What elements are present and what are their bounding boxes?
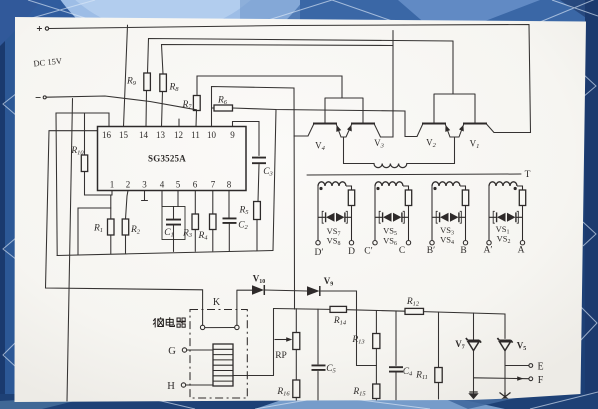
resistor R1 [108,219,115,235]
wire V7 leads [473,313,475,396]
svg-text:D: D [348,247,355,257]
transistor V2 legs [417,124,450,138]
svg-text:B: B [460,246,466,256]
pin numbers bottom row [110,180,232,190]
CJK label 电 [166,319,173,325]
svg-text:15: 15 [119,130,129,140]
wire IC left to outer rail down to relay contact [46,131,203,326]
wire relay coil to RP line [233,375,274,377]
resistor R6 [214,105,233,111]
wire tap V2/V1 box [452,41,454,94]
wire emitters to primary winding [344,137,375,164]
CJK label 繼 [153,318,155,328]
contact circle left [200,325,204,329]
svg-text:RP: RP [275,351,287,361]
wire R1 left branch to bus [78,208,111,255]
wire R7 top to V4/V3 bases [197,76,342,98]
wire R9 top rail to V2/V1 bases [148,39,454,74]
wire R2 bottom [125,235,127,254]
svg-text:3: 3 [142,180,147,190]
wire long left to bottom edge [67,99,73,402]
transistor V2 emitter arrow [445,125,450,132]
polarity dot cell C [376,187,379,190]
polarity dot cell B [433,187,436,190]
terminal H circle [181,383,185,387]
svg-text:C′: C′ [364,247,372,257]
RP wiper lead [275,339,288,341]
contact circle right [235,325,239,329]
wire R6 right long to V2 collector [233,108,418,137]
wire C2 bottom [228,224,230,251]
resistor R8 [160,74,167,92]
wire pin7 R4 [212,191,214,215]
transistor V2 base bar [422,123,446,125]
wire pin10 long to V10/V9 and bus [212,87,295,310]
wire R13 leads [375,311,377,366]
transistor V3 emitter arrow [347,125,352,132]
terminal plus circle [45,27,48,30]
polarity dot cell D [319,187,322,190]
wire H terminal [186,384,213,386]
svg-text:2: 2 [126,180,131,190]
wire V10-V9 link [265,290,308,291]
wire C1 leads [173,207,175,252]
op-amp U1 SG3525A body [98,127,247,191]
transformer core line [307,174,521,175]
relay coil hatch [213,349,233,381]
wire V3 collector to +rail [381,31,394,138]
capacitor C1 outer box [162,207,185,240]
wire R3 bottom [194,230,196,252]
capacitor C5 [312,365,326,370]
svg-text:H: H [167,381,175,392]
diode V6 bottom cut [468,393,478,399]
wire ground bus bottom [57,251,273,256]
capacitor C2 [223,218,237,223]
wire lower bus with R14 R12 [274,309,506,339]
wire C4 leads [395,311,397,400]
svg-text:14: 14 [139,130,149,140]
svg-text:8: 8 [227,180,232,190]
diode V9 [307,286,320,296]
wire V9 cathode to R13/R15 node [321,291,377,366]
wire pin6 R3 [194,191,196,215]
wire relay contact K net [205,290,252,327]
svg-text:13: 13 [156,130,166,140]
wire R10 top to pin16 [85,113,110,155]
RP wiper arrow head [286,337,292,341]
svg-text:16: 16 [102,130,112,140]
potentiometer RP body [293,333,300,350]
wire R4 bottom [212,230,214,252]
wire pin16 rail left branch to ground bus [56,113,85,256]
resistor R12 [405,308,424,314]
terminal G circle [182,348,186,352]
wire R1 top [110,195,112,219]
pin numbers top row [102,130,235,140]
minus sign [36,97,41,99]
CJK label 器 [177,318,180,321]
resistor R2 [122,219,129,235]
svg-text:1: 1 [110,180,115,190]
wire RP wiper vertical [273,309,275,376]
diode V8 bottom cut cross [469,392,510,401]
svg-text:7: 7 [211,180,216,190]
wire R5 bottom [256,220,258,251]
svg-text:D′: D′ [315,248,324,258]
transformer secondary cell A [487,182,526,245]
wire pin8 C2 [228,191,230,219]
zener V5 [497,338,512,343]
svg-text:G: G [168,346,176,357]
wire G terminal [187,349,213,351]
svg-text:SG3525A: SG3525A [148,154,186,164]
relay coil box [213,344,233,386]
svg-text:A: A [518,246,525,256]
wire C3 to R5 [258,165,259,202]
wire F output [474,377,529,380]
diode V9 cathode bar [319,286,321,296]
transformer secondary cell C [373,182,412,245]
wire +15V rail [49,25,530,133]
wire pin3 stub [142,191,148,201]
wire R15 leads [375,366,377,402]
svg-text:12: 12 [174,130,183,140]
svg-text:E: E [537,361,543,372]
svg-text:B′: B′ [427,246,435,256]
wire R10 bottom to pin1 [85,172,113,196]
transistor V1 base bar [463,123,487,125]
diode V10 [252,285,264,295]
polarity dot cell A [514,187,517,190]
resistor R5 [254,202,261,220]
wire pin15 to +rail [124,25,128,126]
F output arrow head [517,376,523,380]
wire pin11 R7 [195,111,198,127]
wire V4 collector [294,135,308,137]
svg-text:5: 5 [176,180,181,190]
wire V5 leads [504,351,506,394]
primary winding coil [374,164,407,168]
transistor V1 emitter arrow [459,125,464,132]
transistor V3 legs [341,124,381,138]
wire pin4 stub [161,191,163,207]
wire RP to R16 [295,350,297,401]
resistor R16 [293,380,300,398]
relay K dashed box [190,310,247,399]
capacitor C1 plates [166,220,181,225]
svg-text:F: F [538,375,544,386]
wire box right edge R6 to bus [273,110,276,251]
svg-text:6: 6 [193,180,198,190]
wire pin5 stub [177,191,179,207]
capacitor C3 [252,158,266,164]
wire V2/V1 base box [434,94,475,124]
transistor V4 legs [308,124,341,138]
transistor V3 base bar [351,123,375,125]
resistor R13 [373,334,380,349]
terminal E circle [529,364,533,368]
wire pin14 R9 [145,91,148,127]
zener V7 [466,338,481,343]
svg-text:9: 9 [230,130,235,140]
svg-text:T: T [525,170,531,180]
wire R6 left [212,107,215,109]
transformer secondary cell B [430,182,469,245]
wire R8 top rail [162,45,394,75]
resistor R3 [192,214,199,230]
transistor V1 legs [450,124,494,138]
wire V4/V3 base box [325,98,363,124]
resistor R15 [373,384,380,399]
svg-text:C: C [399,246,405,256]
wire pin12 stub [178,119,180,127]
svg-text:K: K [213,297,221,308]
resistor R7 [193,96,200,111]
wire C5 leads [317,309,319,400]
transformer secondary cell D [316,182,355,245]
capacitor C4 [389,367,403,371]
transistor V4 base bar [313,123,337,125]
wire pin2 R2 [126,191,129,220]
resistor R4 [210,214,217,230]
svg-text:4: 4 [160,180,165,190]
terminal minus circle [43,96,46,99]
plus sign [37,26,42,31]
wire RP top [295,309,297,333]
wire pin13 R8 [162,92,163,127]
wire pin9 to C3 [233,122,260,156]
resistor R9 [144,73,151,91]
resistor R10 [81,155,87,172]
resistor R14 [330,306,347,312]
resistor R11 [435,368,442,383]
wire R1 bottom [110,235,112,254]
transistor V4 emitter arrow [336,125,341,132]
svg-text:10: 10 [207,130,217,140]
diode V10 cathode bar [263,285,265,295]
wire R11 leads [438,312,440,399]
svg-text:11: 11 [191,130,200,140]
wire -15V [46,96,196,110]
terminal F circle [529,377,533,381]
svg-text:A′: A′ [484,246,493,256]
wire E output [505,365,529,367]
